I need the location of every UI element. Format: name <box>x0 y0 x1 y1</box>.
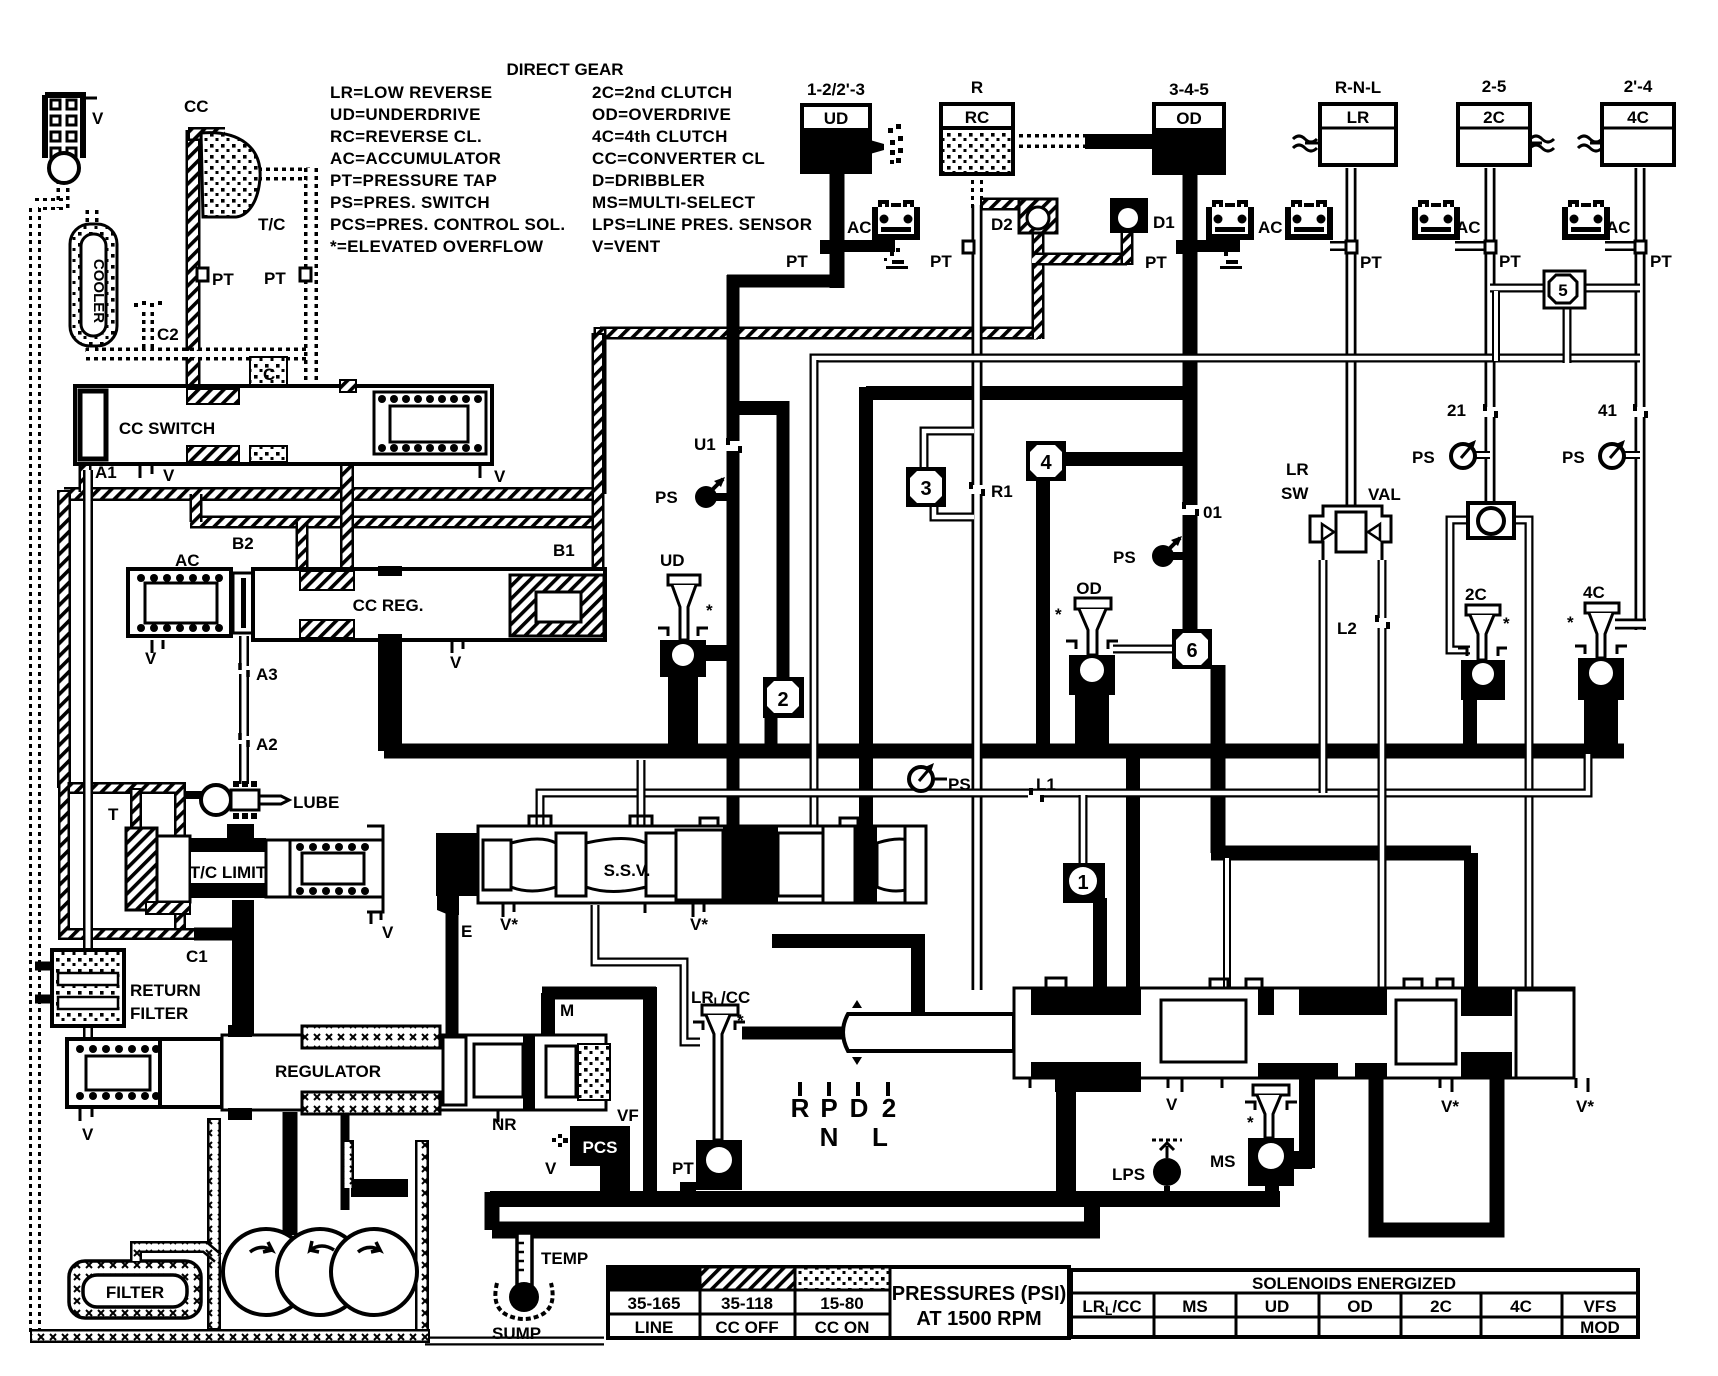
wire RC drain top dotted portion <box>971 172 983 210</box>
wire UD AC branch <box>840 240 895 252</box>
wire C2 stub <box>142 312 154 350</box>
svg-text:21: 21 <box>1447 401 1466 420</box>
wire valve5 left branch down to thin bus <box>1492 291 1500 361</box>
svg-text:M: M <box>560 1001 574 1020</box>
svg-text:V*: V* <box>1576 1097 1594 1116</box>
wire T chamber inner stub <box>130 788 142 830</box>
wire valve5 bottom drop to thin bus <box>1563 305 1572 363</box>
wire T/C LIMIT drain down to regulator <box>232 900 254 1037</box>
svg-text:2: 2 <box>777 689 788 711</box>
wire 2C check loop left wall <box>1450 520 1470 650</box>
valve CC REG <box>128 566 605 653</box>
svg-text:UD: UD <box>1265 1297 1290 1316</box>
wire D1 drain vertical <box>1121 232 1134 265</box>
legend column 1 <box>330 83 565 256</box>
svg-text:B2: B2 <box>232 534 254 553</box>
svg-text:A2: A2 <box>256 735 278 754</box>
wire top thin bus y363 <box>814 358 1640 368</box>
svg-text:V: V <box>1166 1095 1178 1114</box>
svg-text:C: C <box>263 365 275 384</box>
PT tick UD line <box>820 240 834 254</box>
svg-text:LPS: LPS <box>1112 1165 1145 1184</box>
wire node 1 hanger <box>1079 795 1088 866</box>
svg-text:*: * <box>706 601 713 620</box>
svg-text:REGULATOR: REGULATOR <box>275 1062 381 1081</box>
svg-text:PS: PS <box>1562 448 1585 467</box>
wire MS seat connector to bar1 <box>1265 1180 1279 1199</box>
svg-text:P: P <box>820 1093 837 1123</box>
svg-text:LR: LR <box>1286 460 1309 479</box>
wire node 1 drain to manual valve <box>1093 898 1107 990</box>
svg-text:PRESSURES (PSI): PRESSURES (PSI) <box>892 1283 1066 1305</box>
PT tick on bottom bus <box>680 1182 696 1194</box>
svg-text:COOLER: COOLER <box>90 259 107 323</box>
svg-text:AC: AC <box>175 551 200 570</box>
svg-text:PS: PS <box>655 488 678 507</box>
wire vertical hatched x600 from line A down to line B <box>594 327 607 494</box>
svg-text:MS=MULTI-SELECT: MS=MULTI-SELECT <box>592 193 756 212</box>
svg-text:V*: V* <box>500 915 518 934</box>
wire valve5 left link to 2C line <box>1490 284 1548 293</box>
dribbler D2 <box>1019 199 1057 233</box>
svg-text:*: * <box>1247 1113 1254 1132</box>
cooler <box>70 224 117 346</box>
clutch RC box <box>941 104 1013 174</box>
svg-text:41: 41 <box>1598 401 1617 420</box>
manual valve body <box>1014 978 1588 1092</box>
svg-text:AC=ACCUMULATOR: AC=ACCUMULATOR <box>330 149 501 168</box>
check valve 4C <box>1575 603 1627 700</box>
tick break L2 <box>1374 615 1390 629</box>
valve REGULATOR <box>67 1025 610 1122</box>
vent ticks <box>152 640 463 653</box>
wire UD feed corner left at PT level <box>727 275 844 288</box>
svg-text:PS=PRES. SWITCH: PS=PRES. SWITCH <box>330 193 490 212</box>
tick break 41 <box>1632 404 1648 418</box>
svg-text:FILTER: FILTER <box>130 1004 188 1023</box>
wire B2 link vertical <box>190 494 203 522</box>
wire D1 drain horizontal <box>1032 253 1127 266</box>
check valve UD <box>658 575 708 677</box>
tick break A3 <box>238 663 250 677</box>
wire UD clutch feed down from UD box <box>830 170 845 288</box>
svg-text:PT: PT <box>930 252 952 271</box>
valve CC SWITCH <box>75 380 492 478</box>
wire bar1-bar2 connector <box>1084 1199 1100 1230</box>
svg-text:PS: PS <box>1412 448 1435 467</box>
node 3 <box>906 467 946 507</box>
svg-text:5: 5 <box>1558 281 1567 300</box>
clutch 2C box <box>1458 104 1554 165</box>
svg-text:2C: 2C <box>1465 585 1487 604</box>
wire L1 line <box>540 754 1588 800</box>
svg-text:RC: RC <box>965 108 990 127</box>
pressure switch PS 41 gauge <box>1600 440 1625 468</box>
AC vent dots under UD AC <box>884 248 908 269</box>
wire A3/A2 line from CC REG piston down <box>239 636 249 784</box>
wire thin bus drop to SSV <box>810 360 819 828</box>
wire cooler inlet stub <box>86 210 99 228</box>
PT tick RC line <box>963 241 974 253</box>
FILTER <box>69 1261 201 1318</box>
wire A1 hatched stub below CC SWITCH left <box>79 462 92 492</box>
valve LR SW / VAL <box>1310 506 1391 560</box>
svg-text:AC: AC <box>1456 218 1481 237</box>
PT tick 4C line <box>1635 241 1646 253</box>
accumulator AC symbol (UD) <box>875 202 917 237</box>
svg-text:*: * <box>1055 605 1062 624</box>
manual valve rod <box>843 1000 1014 1065</box>
accumulator AC symbol (LR) <box>1288 202 1330 237</box>
svg-text:LUBE: LUBE <box>293 793 339 812</box>
wire bottom return line to sump <box>425 1337 604 1346</box>
wire line C drop to CC REG body <box>296 522 309 572</box>
SSV port tabs top <box>529 816 858 826</box>
wire node 4 output to OD line <box>1062 452 1183 466</box>
svg-text:PT: PT <box>1499 252 1521 271</box>
svg-text:V: V <box>494 467 506 486</box>
svg-text:R1: R1 <box>991 482 1013 501</box>
node 6 <box>1172 629 1212 669</box>
svg-text:LRL/CC: LRL/CC <box>691 988 750 1009</box>
node 1 <box>1063 863 1105 903</box>
solenoid PCS <box>552 1126 630 1200</box>
wire 4C AC branch <box>1605 241 1640 251</box>
svg-text:PT: PT <box>672 1159 694 1178</box>
svg-text:PT: PT <box>1650 252 1672 271</box>
svg-text:PS: PS <box>1113 548 1136 567</box>
wire bar2 left connector down from regulator drain <box>485 1192 500 1230</box>
LPS sensor <box>1152 1140 1182 1199</box>
clutch UD box <box>802 105 870 172</box>
valve S.S.V. <box>436 816 926 917</box>
svg-text:RC=REVERSE CL.: RC=REVERSE CL. <box>330 127 482 146</box>
wire node 6 drain right <box>1211 846 1471 861</box>
wire node 2 drain to main bus <box>765 713 778 752</box>
wire CC pipe top corner into T/C dome <box>188 127 225 141</box>
svg-text:AC: AC <box>1258 218 1283 237</box>
svg-text:LINE: LINE <box>635 1318 674 1337</box>
svg-text:V=VENT: V=VENT <box>592 237 661 256</box>
svg-text:CC: CC <box>184 97 209 116</box>
svg-text:D=DRIBBLER: D=DRIBBLER <box>592 171 705 190</box>
dribbler D1 <box>1110 198 1148 233</box>
svg-text:2C=2nd CLUTCH: 2C=2nd CLUTCH <box>592 83 732 102</box>
svg-text:V: V <box>545 1159 557 1178</box>
node 4 <box>1026 441 1066 481</box>
svg-text:SUMP: SUMP <box>492 1324 541 1343</box>
svg-text:AC: AC <box>847 218 872 237</box>
PT tick OD line <box>1176 240 1188 254</box>
svg-text:TEMP: TEMP <box>541 1249 588 1268</box>
wire CC REG drain down <box>378 640 402 751</box>
svg-text:AC: AC <box>1606 218 1631 237</box>
wire branch to node 2 line <box>733 401 783 415</box>
svg-text:MS: MS <box>1210 1152 1236 1171</box>
svg-text:MS: MS <box>1182 1297 1208 1316</box>
node 2 <box>763 677 804 718</box>
svg-text:2'-4: 2'-4 <box>1624 77 1653 96</box>
svg-text:2-5: 2-5 <box>1482 77 1507 96</box>
svg-text:UD: UD <box>660 551 685 570</box>
svg-text:VF: VF <box>617 1106 639 1125</box>
SSV vent ticks bottom <box>503 903 704 917</box>
LUBE fitting <box>185 781 289 819</box>
wire SSV left top port pipe <box>536 796 545 826</box>
wire UD feed vertical down to S.S.V. <box>727 275 740 828</box>
wire RC to D2 hatched stub <box>980 198 1019 211</box>
svg-text:N: N <box>820 1122 839 1152</box>
svg-text:L1: L1 <box>1036 775 1056 794</box>
wire thick horizontal y390 from OD line to SSV line <box>866 386 1183 400</box>
wire bottom bus bar2 <box>492 1222 1100 1239</box>
wire hatched line B <box>64 487 604 501</box>
vent ladder top-left <box>45 95 97 183</box>
svg-text:V: V <box>145 649 157 668</box>
svg-text:15-80: 15-80 <box>820 1294 863 1313</box>
svg-text:R: R <box>791 1093 810 1123</box>
wire C1 stub <box>194 928 234 941</box>
svg-text:D2: D2 <box>991 215 1013 234</box>
svg-text:SOLENOIDS ENERGIZED: SOLENOIDS ENERGIZED <box>1252 1274 1456 1293</box>
svg-text:R-N-L: R-N-L <box>1335 78 1381 97</box>
svg-text:PT: PT <box>212 270 234 289</box>
wire CC pipe vertical from converter to CC SWITCH <box>186 130 201 388</box>
manual valve port tabs <box>1046 978 1453 988</box>
svg-text:2C: 2C <box>1430 1297 1452 1316</box>
wire main line bus <box>384 744 1624 759</box>
svg-text:V: V <box>382 923 394 942</box>
sump suction chamber <box>30 1118 430 1336</box>
tick break 01 <box>1180 502 1200 516</box>
svg-text:1: 1 <box>1077 872 1088 894</box>
svg-text:D: D <box>850 1093 869 1123</box>
svg-text:PT: PT <box>786 252 808 271</box>
wire hatched line C <box>190 516 598 529</box>
svg-text:PT=PRESSURE TAP: PT=PRESSURE TAP <box>330 171 497 190</box>
svg-text:D1: D1 <box>1153 213 1175 232</box>
gear position ticks R P D 2 <box>800 1082 888 1096</box>
accumulator AC symbol (OD) <box>1209 202 1251 237</box>
wire cooler outlet line to C block <box>86 340 310 354</box>
svg-text:UD=UNDERDRIVE: UD=UNDERDRIVE <box>330 105 481 124</box>
thermometer TEMP / SUMP <box>495 1233 552 1319</box>
wire T chamber loop border <box>64 788 180 930</box>
svg-text:4C=4th CLUTCH: 4C=4th CLUTCH <box>592 127 728 146</box>
wire OD clutch feed down from OD box (01 line) <box>1183 170 1198 640</box>
wire SSV third feed vertical <box>859 387 873 828</box>
pump assembly (3 gerotors) <box>223 1229 417 1315</box>
wire RC / R1 line down to manual valve <box>972 205 983 990</box>
wire vent to cooler stem <box>57 180 70 210</box>
body <box>253 569 605 640</box>
svg-text:VFS: VFS <box>1583 1297 1616 1316</box>
AC vent dots under OD AC <box>1220 248 1242 269</box>
svg-text:PT: PT <box>1360 253 1382 272</box>
wire manual valve bottom drain to bus <box>1056 1078 1076 1199</box>
wire M bar horizontal <box>542 987 656 1000</box>
PT tick LR line <box>1346 241 1357 253</box>
svg-text:PCS: PCS <box>583 1138 618 1157</box>
filter suction pipe <box>136 1247 218 1261</box>
svg-text:OD: OD <box>1176 109 1202 128</box>
wire SSV bottom drain staircase to LRL/CC <box>595 905 700 1042</box>
wire node 6 lower thin drop to manual valve <box>1223 858 1231 990</box>
svg-text:PS: PS <box>948 775 971 794</box>
svg-text:4C: 4C <box>1510 1297 1532 1316</box>
svg-text:V: V <box>450 653 462 672</box>
solid black portion of RC-OD link <box>1085 134 1157 149</box>
svg-text:A1: A1 <box>95 463 117 482</box>
svg-text:V: V <box>163 466 175 485</box>
wire T/C right pipe down to CC SWITCH <box>304 168 318 386</box>
svg-text:OD=OVERDRIVE: OD=OVERDRIVE <box>592 105 731 124</box>
wire left hatched pipe down <box>57 490 71 788</box>
spool spring section with dots <box>374 392 486 454</box>
tick breaks: U1 <box>725 438 742 453</box>
svg-text:2: 2 <box>882 1093 896 1123</box>
svg-text:4C: 4C <box>1627 108 1649 127</box>
wire regulator drain to pump <box>283 1112 298 1235</box>
wire SSV bottom-right drain bar <box>772 934 918 948</box>
wire UD check outlet stub to UD line <box>700 645 730 661</box>
PT tick left on CC pipe <box>197 268 208 281</box>
svg-text:V*: V* <box>690 915 708 934</box>
wire valve5 right link to 4C line <box>1580 284 1640 293</box>
wire T/C dome outlet right <box>258 168 311 181</box>
svg-text:R: R <box>971 78 983 97</box>
svg-text:PT: PT <box>264 269 286 288</box>
wire 2C AC branch <box>1455 241 1490 251</box>
wire SSV drain left to LRL/CC seat <box>742 1027 925 1040</box>
wire RC clutch outlet dotted to OD <box>1011 134 1090 148</box>
wire E drain from SSV left <box>446 905 459 1037</box>
wire manual valve drain U loop <box>1376 1078 1497 1230</box>
wire MS seat link up to manual valve <box>1299 1078 1315 1168</box>
svg-text:C1: C1 <box>186 947 208 966</box>
wire node 3 lower stub <box>934 505 974 517</box>
C dotted block <box>250 357 287 389</box>
svg-text:*: * <box>1567 613 1574 632</box>
check valve MS <box>1245 1085 1297 1186</box>
svg-text:*: * <box>1503 614 1510 633</box>
svg-text:PT: PT <box>1145 253 1167 272</box>
wire node 2 vertical <box>777 401 790 682</box>
wire 2C check drain to bus <box>1463 700 1477 750</box>
svg-text:DIRECT GEAR: DIRECT GEAR <box>506 60 623 79</box>
svg-text:01: 01 <box>1203 503 1222 522</box>
valve T/C LIMIT <box>126 824 383 924</box>
wire bus feed down to manual valve <box>1126 751 1140 990</box>
svg-text:L2: L2 <box>1337 619 1357 638</box>
svg-text:V: V <box>82 1125 94 1144</box>
svg-text:SW: SW <box>1281 484 1309 503</box>
svg-text:1-2/2'-3: 1-2/2'-3 <box>807 80 865 99</box>
svg-text:B1: B1 <box>553 541 575 560</box>
pressure switch PS 21 gauge <box>1451 440 1476 468</box>
wire A1 line from CC SWITCH down to regulator <box>83 470 93 1037</box>
piston A3 <box>233 573 253 633</box>
svg-text:S.S.V.: S.S.V. <box>604 861 651 880</box>
vent ticks under CC SWITCH <box>140 464 480 478</box>
svg-text:CC OFF: CC OFF <box>715 1318 778 1337</box>
wire OD check drain to bus <box>1075 690 1109 750</box>
wire node 6 drain down to manual valve <box>1464 853 1478 990</box>
svg-text:PCS=PRES. CONTROL SOL.: PCS=PRES. CONTROL SOL. <box>330 215 565 234</box>
svg-text:*=ELEVATED OVERFLOW: *=ELEVATED OVERFLOW <box>330 237 544 256</box>
svg-text:FILTER: FILTER <box>106 1283 164 1302</box>
wire regulator second drain <box>341 1112 350 1210</box>
C2 vent dots <box>134 301 162 307</box>
svg-text:MOD: MOD <box>1580 1318 1620 1337</box>
pressure switch PS gauge near L1 <box>909 763 947 791</box>
tick break R1 <box>968 482 986 496</box>
wire B1 vertical to CC REG right <box>592 333 605 572</box>
check valve OD <box>1066 598 1118 695</box>
wire pump manifold bar <box>351 1179 408 1197</box>
wire node 4 drain down to main bus <box>1036 475 1050 752</box>
svg-text:35-165: 35-165 <box>628 1294 681 1313</box>
svg-text:LPS=LINE PRES. SENSOR: LPS=LINE PRES. SENSOR <box>592 215 812 234</box>
svg-text:U1: U1 <box>694 435 716 454</box>
check valve LRL/CC <box>693 1005 745 1190</box>
svg-text:LR: LR <box>1347 108 1370 127</box>
sprayer at UD <box>870 124 903 164</box>
svg-text:C2: C2 <box>157 325 179 344</box>
tick break L1 <box>1028 788 1044 802</box>
wire OD check link to node 6 <box>1113 645 1175 654</box>
node 5 valve <box>1544 271 1585 308</box>
wire D2 drain vertical <box>1032 230 1045 339</box>
legend column 2 <box>592 83 812 256</box>
svg-text:L: L <box>872 1122 888 1152</box>
wire 4C check inlet corner <box>1615 619 1646 630</box>
wire bottom bus bar1 <box>490 1191 1280 1207</box>
solenoids energized table <box>1071 1270 1638 1337</box>
pressure switch PS on U1 line (filled) <box>695 477 728 508</box>
svg-text:CC SWITCH: CC SWITCH <box>119 419 215 438</box>
wire UD check drain to bus <box>668 672 698 750</box>
svg-text:LR=LOW REVERSE: LR=LOW REVERSE <box>330 83 492 102</box>
pressures table <box>608 1267 1069 1338</box>
svg-text:6: 6 <box>1186 640 1197 662</box>
svg-text:A3: A3 <box>256 665 278 684</box>
svg-text:T/C LIMIT: T/C LIMIT <box>190 863 267 882</box>
svg-text:3: 3 <box>920 478 931 500</box>
svg-text:T/C: T/C <box>258 215 285 234</box>
wire LR AC branch <box>1330 241 1351 251</box>
clutch 4C box <box>1578 104 1674 165</box>
accumulator AC symbol (2C) <box>1415 202 1457 237</box>
PT tick right on T/C pipe <box>300 268 311 281</box>
svg-text:AT 1500 RPM: AT 1500 RPM <box>916 1308 1041 1330</box>
RETURN FILTER <box>35 950 124 1026</box>
gear letters R P D 2 N L <box>791 1093 897 1152</box>
svg-text:V: V <box>92 109 104 128</box>
svg-text:UD: UD <box>824 109 849 128</box>
svg-text:CC=CONVERTER CL: CC=CONVERTER CL <box>592 149 765 168</box>
PT tick 2C line <box>1485 241 1496 253</box>
wire OD AC branch <box>1190 240 1240 252</box>
clutch OD box <box>1154 104 1224 173</box>
wire long hatched line A (D2 drain to CC SWITCH area) <box>600 327 1038 340</box>
wire 2C clutch line down to check valve <box>1485 168 1496 508</box>
svg-text:3-4-5: 3-4-5 <box>1169 80 1209 99</box>
svg-text:OD: OD <box>1076 579 1102 598</box>
wire 2C check loop right wall / drain to manual valve <box>1497 520 1529 990</box>
accumulator AC symbol (4C) <box>1565 202 1607 237</box>
svg-text:RETURN: RETURN <box>130 981 201 1000</box>
